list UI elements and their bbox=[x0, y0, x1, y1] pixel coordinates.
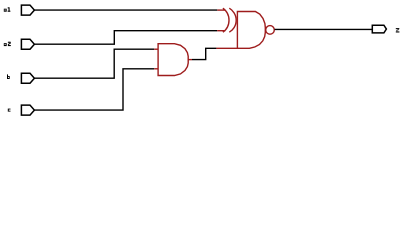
input port b bbox=[21, 73, 34, 83]
label a1 bbox=[4, 9, 7, 12]
xnor-gate U1 input arc 1 bbox=[223, 8, 229, 32]
wire b bbox=[34, 49, 154, 78]
xnor-gate U1 body bbox=[237, 12, 265, 49]
and-gate U2 body bbox=[158, 44, 188, 76]
xnor-gate U1 pin a1 stub bbox=[217, 9, 225, 11]
wire c bbox=[34, 69, 154, 110]
input port a1 bbox=[21, 5, 34, 15]
and-gate U2 pin b stub bbox=[154, 48, 158, 50]
and-gate U2 pin c stub bbox=[154, 68, 158, 70]
xnor-gate U1 pin 3 (from and-gate) bbox=[216, 47, 237, 49]
xnor-gate U1 input arc 2 bbox=[229, 8, 236, 32]
label c bbox=[8, 109, 11, 112]
label z bbox=[396, 28, 400, 29]
label b bbox=[7, 74, 8, 79]
output port z bbox=[372, 25, 386, 33]
and-gate U2 output stub bbox=[188, 59, 192, 61]
wire a2 bbox=[34, 31, 217, 45]
wire and-output bbox=[192, 48, 216, 59]
input port c bbox=[21, 105, 34, 115]
input port a2 bbox=[21, 39, 34, 49]
xnor-gate U1 pin a2 stub bbox=[217, 30, 225, 32]
label a2 bbox=[4, 43, 7, 46]
wire z bbox=[275, 28, 373, 30]
wire a1 bbox=[34, 9, 217, 11]
xnor-gate U1 output bubble bbox=[266, 26, 275, 35]
